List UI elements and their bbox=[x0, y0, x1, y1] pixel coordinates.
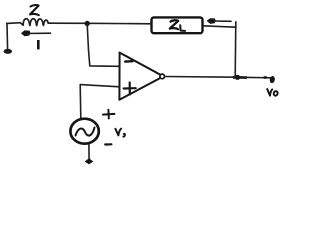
wire: source bottom stub bbox=[88, 144, 90, 159]
op-amp U1 bbox=[119, 53, 164, 100]
label + (source polarity) bbox=[103, 110, 114, 119]
wire: source up and right to non-inverting input bbox=[80, 85, 119, 119]
output terminal blob bbox=[263, 76, 275, 84]
label Vo bbox=[267, 89, 277, 96]
label ZL bbox=[170, 20, 185, 31]
label + (non-inverting input) bbox=[124, 83, 136, 95]
wire: node A down and right to inverting input bbox=[87, 24, 119, 66]
node B (output junction) bbox=[233, 75, 247, 80]
wire: vertical drop to output node bbox=[234, 22, 237, 78]
label - (source polarity) bbox=[105, 143, 111, 145]
impedance Z (zigzag) bbox=[21, 19, 51, 26]
current arrow into ZL bbox=[207, 18, 231, 24]
wire: top horizontal (Z to ZL box) bbox=[50, 22, 151, 25]
label vs bbox=[115, 129, 125, 137]
label I bbox=[37, 40, 40, 49]
label - (inverting input) bbox=[125, 60, 132, 63]
wire: op-amp output to terminal bbox=[164, 77, 270, 78]
ground (left terminal blob) bbox=[4, 49, 12, 54]
source vs (AC source circle) bbox=[70, 119, 98, 144]
wire: left lead to Z bbox=[7, 22, 21, 25]
label Z bbox=[30, 5, 39, 15]
wire: left vertical stub bbox=[6, 23, 9, 50]
wire: ZL right side to vertical drop bbox=[203, 26, 236, 27]
ground (bottom terminal diamond) bbox=[85, 158, 94, 164]
node A (junction to inverting branch) bbox=[85, 21, 90, 26]
impedance ZL (feedback box) bbox=[152, 17, 203, 33]
current arrow I bbox=[21, 30, 51, 36]
